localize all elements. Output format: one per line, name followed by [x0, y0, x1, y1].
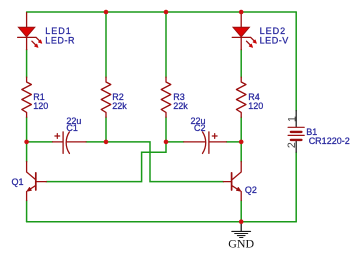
svg-text:22k: 22k	[173, 101, 188, 111]
junction dot node 1	[104, 140, 109, 145]
svg-text:LED-R: LED-R	[45, 36, 75, 46]
wire R4 bottom to Q2 collector	[240, 117, 242, 162]
junction dot node D / C2	[239, 140, 244, 145]
svg-text:GND: GND	[228, 237, 254, 251]
wire R3 bottom	[165, 117, 167, 142]
junction dot top B	[104, 10, 109, 15]
svg-text:2: 2	[286, 142, 298, 148]
wire R2 bottom	[105, 117, 107, 142]
junction dot node A / C1	[24, 140, 29, 145]
svg-text:120: 120	[33, 101, 48, 111]
capacitor C1	[53, 132, 86, 154]
svg-text:22k: 22k	[112, 101, 127, 111]
wire node 2 to Q1 base	[46, 142, 166, 182]
wire Q2 emitter to ground rail	[240, 201, 242, 222]
svg-text:LED2: LED2	[260, 26, 287, 36]
wire Q1 emitter to ground rail	[26, 201, 28, 222]
wire battery bottom	[295, 152, 297, 222]
wire R1 bottom to Q1 collector	[26, 117, 28, 162]
svg-text:Q1: Q1	[12, 177, 24, 187]
svg-text:1: 1	[286, 116, 298, 122]
wire node A to C1 left	[27, 141, 53, 143]
battery B1	[295, 111, 297, 152]
svg-text:C1: C1	[66, 123, 78, 133]
junction dot top D	[239, 10, 244, 15]
svg-text:CR1220-2: CR1220-2	[309, 136, 350, 146]
junction dot ground	[239, 219, 244, 224]
junction dot node 2	[164, 140, 169, 145]
svg-text:Q2: Q2	[245, 185, 257, 195]
LED LED1	[18, 13, 40, 50]
transistor Q2	[223, 162, 241, 201]
wire LED1 to R1	[26, 50, 28, 78]
ground symbol	[232, 222, 251, 238]
transistor Q1	[27, 162, 47, 201]
capacitor C2	[184, 132, 227, 154]
LED LED2	[232, 12, 254, 50]
resistor R4	[236, 77, 246, 117]
resistor R3	[161, 77, 171, 117]
wire branch B upper (R2 top)	[105, 12, 107, 77]
wire LED2 to R4	[240, 50, 242, 78]
svg-text:C2: C2	[194, 123, 206, 133]
wire top rail	[27, 11, 297, 13]
wire C2 right to node D	[226, 141, 241, 143]
resistor R2	[101, 77, 111, 117]
wire node 2 to C2 left	[166, 141, 184, 143]
wire battery top	[295, 12, 297, 111]
svg-text:LED1: LED1	[45, 26, 72, 36]
wire node 1 to Q2 base	[106, 142, 223, 182]
wire C1 right to node 1	[86, 141, 106, 143]
resistor R1	[22, 77, 32, 117]
junction dot top C	[164, 10, 169, 15]
wire ground rail	[27, 221, 297, 223]
svg-text:120: 120	[248, 101, 263, 111]
svg-text:LED-V: LED-V	[260, 36, 289, 46]
wire branch C upper (R3 top)	[165, 12, 167, 77]
